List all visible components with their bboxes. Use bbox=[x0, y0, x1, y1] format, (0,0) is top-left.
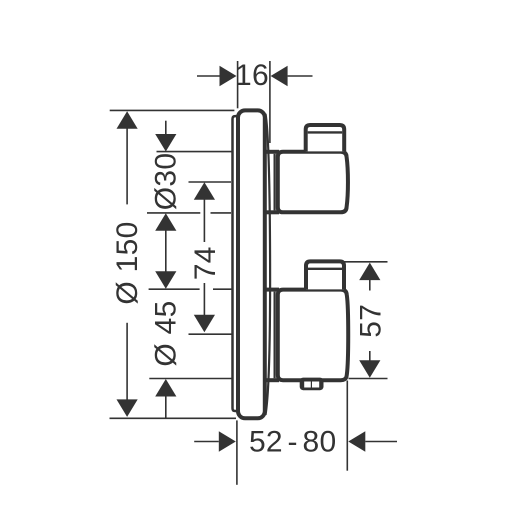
bottom handle neck bottom edge bbox=[265, 378, 279, 382]
top handle neck top edge bbox=[265, 150, 279, 154]
svg-text:16: 16 bbox=[235, 59, 269, 92]
dimension Ø30: top line bbox=[157, 151, 233, 153]
bottom handle neck front thin line bbox=[274, 292, 276, 379]
dimension 74: bottom line bbox=[189, 333, 232, 335]
bottom handle neck top edge bbox=[265, 288, 279, 292]
dimension 57: bottom arrow (pointing down) bbox=[369, 351, 371, 361]
escutcheon plate (side view) bbox=[238, 110, 265, 418]
dimension Ø45: bottom line bbox=[149, 378, 232, 380]
bottom handle cap bbox=[306, 261, 344, 289]
svg-text:52 - 80: 52 - 80 bbox=[249, 426, 337, 459]
svg-text:Ø30: Ø30 bbox=[149, 153, 182, 211]
shared arrows between Ø30 and Ø45 bbox=[155, 213, 176, 231]
dimension 74: top arrow (pointing up) bbox=[194, 182, 215, 200]
svg-text:Ø 45: Ø 45 bbox=[149, 300, 182, 366]
dimension Ø45: top line bbox=[149, 288, 200, 290]
extension line plate top (for Ø150) bbox=[110, 109, 235, 111]
extension line 52-80 right bbox=[346, 381, 348, 471]
top handle neck front thin line bbox=[274, 154, 276, 211]
dimension 57: top arrow (pointing up) bbox=[359, 263, 380, 281]
dimension 52-80: left arrow bbox=[194, 441, 219, 443]
bottom handle cap inner line bbox=[308, 268, 342, 270]
dimension 57: top line bbox=[344, 261, 388, 263]
extension line plate bottom (for Ø150) bbox=[110, 417, 237, 419]
bottom handle body bbox=[278, 290, 348, 381]
wall sleeve profile bbox=[233, 116, 239, 411]
dimension Ø30: top arrow (pointing down) bbox=[165, 121, 167, 149]
dimension Ø45: bottom arrow (pointing up) bbox=[155, 379, 176, 397]
dimension 74: top line bbox=[189, 181, 232, 183]
top handle cap inner line bbox=[308, 131, 343, 133]
retaining clip under bottom handle bbox=[300, 378, 324, 391]
extension line 52-80 left bbox=[236, 420, 238, 484]
dimension 74: bottom arrow (pointing down) bbox=[203, 283, 205, 316]
svg-text:57: 57 bbox=[355, 304, 388, 338]
plate front face curve bbox=[266, 114, 271, 415]
dimension Ø30: bottom line bbox=[147, 212, 200, 214]
top handle cap bbox=[306, 125, 345, 151]
dimension 52-80: right arrow bbox=[348, 431, 365, 452]
top handle neck bottom edge bbox=[265, 210, 279, 214]
svg-text:74: 74 bbox=[189, 246, 222, 280]
dimension Ø150: line and arrows bbox=[126, 113, 128, 204]
dimension 57: bottom line bbox=[349, 378, 388, 380]
dimension 16: left arrow bbox=[197, 75, 221, 77]
top handle body bbox=[278, 152, 348, 213]
extension line 16 left bbox=[237, 61, 239, 108]
extension line 16 right bbox=[269, 61, 271, 143]
dimension 16: right arrow bbox=[271, 66, 288, 87]
svg-text:Ø 150: Ø 150 bbox=[111, 221, 144, 304]
